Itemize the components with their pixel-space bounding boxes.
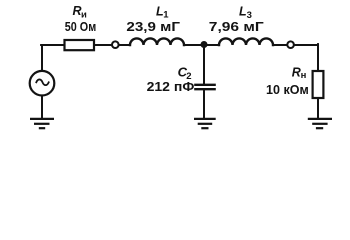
svg-text:50 Ом: 50 Ом bbox=[65, 20, 96, 34]
label Rн bbox=[292, 66, 307, 81]
svg-text:R: R bbox=[292, 66, 301, 80]
wire L3 to node 3 bbox=[273, 44, 287, 46]
inductor L3 bbox=[219, 38, 273, 45]
ground under Rн bbox=[308, 119, 332, 128]
svg-text:212 пФ: 212 пФ bbox=[147, 80, 195, 94]
wire main line to resistor Rи bbox=[41, 44, 64, 46]
resistor Rн bbox=[313, 71, 324, 98]
capacitor C2 top plate bbox=[195, 84, 214, 86]
wire junction down to C2 bbox=[203, 45, 205, 84]
junction dot node 2 bbox=[201, 41, 208, 48]
svg-text:и: и bbox=[81, 9, 87, 20]
AC source V bbox=[30, 71, 55, 96]
node 1 (open terminal) bbox=[112, 41, 119, 48]
wire from source top up to main line bbox=[41, 45, 43, 71]
node 3 (open terminal) bbox=[287, 41, 294, 48]
svg-text:7,96 мГ: 7,96 мГ bbox=[209, 20, 264, 34]
svg-text:10 кОм: 10 кОм bbox=[266, 83, 309, 97]
svg-text:23,9 мГ: 23,9 мГ bbox=[126, 20, 180, 34]
ground under C2 bbox=[194, 119, 216, 128]
svg-text:н: н bbox=[301, 70, 307, 81]
wire node 1 to inductor L1 bbox=[119, 44, 130, 46]
capacitor C2 bottom plate bbox=[195, 88, 214, 90]
wire source bottom to ground bbox=[41, 96, 43, 118]
label L1 bbox=[156, 5, 169, 21]
label Rи bbox=[73, 4, 88, 20]
resistor Rи bbox=[65, 40, 95, 50]
sine symbol inside source bbox=[36, 79, 48, 85]
wire resistor to node 1 bbox=[94, 44, 112, 46]
label C2 bbox=[178, 64, 192, 82]
label L3 bbox=[239, 5, 252, 21]
svg-text:L: L bbox=[239, 5, 247, 19]
wire Rн to ground bbox=[317, 98, 319, 118]
wire down to resistor Rн bbox=[317, 44, 319, 71]
inductor L1 bbox=[130, 38, 184, 45]
wire node 3 to right corner bbox=[294, 44, 318, 46]
ground under source bbox=[30, 119, 54, 128]
wire C2 to ground bbox=[203, 89, 205, 118]
wire L1 to L3 through junction bbox=[184, 44, 219, 46]
